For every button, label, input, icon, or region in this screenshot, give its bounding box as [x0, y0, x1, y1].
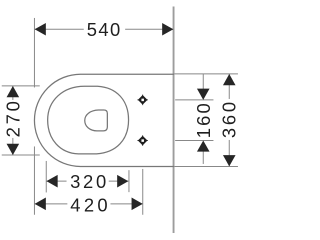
dim 360: extension line bottom	[174, 165, 238, 167]
dim 420: extension line right	[142, 169, 144, 215]
svg-text:360: 360	[218, 99, 239, 138]
dim 420: arrow left	[35, 198, 46, 211]
dim 360: arrow down	[223, 155, 236, 166]
toilet outer contour (top view)	[34, 74, 174, 166]
dim 360: extension line top	[174, 73, 238, 75]
dim 420: extension line left	[33, 146, 35, 214]
dim 540: extension line left	[33, 18, 35, 88]
dim 320: extension line left	[45, 161, 47, 193]
drain outline	[85, 110, 108, 131]
dim 270: arrow down	[7, 144, 20, 155]
dim 270: arrow up	[7, 86, 20, 97]
fixing hole bottom	[137, 135, 148, 146]
dim 270: extension line bottom	[2, 154, 40, 156]
svg-text:160: 160	[193, 101, 214, 138]
dim 160: upper stem	[202, 74, 204, 90]
wall line	[173, 6, 175, 233]
svg-text:270: 270	[2, 98, 23, 137]
dim 160: arrow up (outside below)	[197, 140, 210, 151]
dim 160: arrow down (outside above)	[197, 89, 210, 100]
svg-text:540: 540	[87, 19, 122, 40]
svg-text:320: 320	[70, 171, 109, 192]
dim 270: line	[12, 86, 14, 100]
dim 420: arrow right	[132, 198, 143, 211]
dim 360: arrow up	[223, 74, 236, 85]
dim 540: line	[35, 28, 84, 30]
dim 320: extension line right	[128, 170, 130, 192]
svg-text:420: 420	[70, 195, 111, 216]
dim 420: line	[35, 203, 68, 205]
dim 160: lower stem	[202, 151, 204, 164]
dim 320: line	[46, 180, 66, 182]
dim 160: extension line bottom	[175, 139, 213, 141]
dim 160: extension line top	[175, 99, 213, 101]
dim 270: extension line top	[2, 85, 40, 87]
dim 540: arrow right	[162, 23, 173, 36]
dim 540: arrow left	[35, 23, 46, 36]
toilet inner rim	[48, 86, 129, 154]
dim 320: arrow left	[46, 175, 57, 188]
fixing hole top	[137, 95, 148, 106]
dim 360: line	[228, 74, 230, 99]
dim 320: arrow right	[117, 175, 128, 188]
